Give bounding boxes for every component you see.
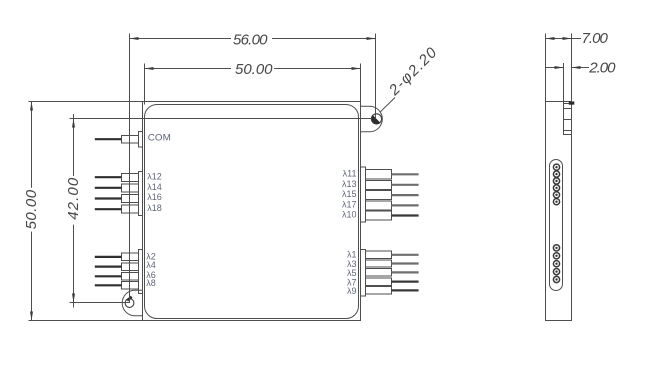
dimension 50.00 vertical bbox=[29, 102, 143, 321]
pin lambda12 bbox=[95, 176, 122, 178]
side top block (2mm plate) bbox=[564, 104, 572, 135]
extension line bottom bbox=[29, 320, 143, 322]
side view fiber holes bottom group bbox=[553, 245, 559, 283]
dimension 42.00 vertical bbox=[70, 114, 372, 308]
block 1 bbox=[366, 251, 392, 259]
svg-text:λ15: λ15 bbox=[342, 189, 357, 199]
pin lambda9 bbox=[392, 289, 419, 291]
block 17 bbox=[366, 201, 392, 210]
pin lambda17 bbox=[392, 204, 419, 206]
block 4 bbox=[122, 263, 139, 271]
pin lambda3 bbox=[392, 262, 419, 264]
left upper connector flange (lambda12-18) bbox=[122, 172, 143, 216]
pins lambda12-18 bbox=[95, 177, 122, 209]
block 15 bbox=[366, 191, 392, 200]
pin lambda10 bbox=[392, 214, 419, 216]
svg-text:50.00: 50.00 bbox=[23, 189, 40, 229]
pins lambda1-9 bbox=[392, 255, 419, 291]
side top block dark pin bbox=[569, 101, 575, 104]
block 3 bbox=[366, 260, 392, 267]
left lower connector flange (lambda2-8) bbox=[122, 250, 143, 294]
pin lambda15 bbox=[392, 194, 419, 196]
block 10 bbox=[366, 211, 392, 220]
block 5 bbox=[366, 269, 392, 277]
pin lambda5 bbox=[392, 271, 419, 273]
front view outer rectangle bbox=[143, 102, 361, 321]
bottom-left mounting ear bbox=[122, 290, 142, 316]
port labels right bbox=[342, 169, 357, 297]
block 13 bbox=[366, 181, 392, 190]
block 7 bbox=[366, 278, 392, 286]
extension line right (to top-right hole) bbox=[375, 34, 377, 119]
pin lambda8 bbox=[95, 284, 122, 286]
pins lambda2-8 bbox=[95, 257, 122, 285]
dimension 7.00 bbox=[546, 34, 582, 102]
block 2 bbox=[122, 253, 139, 261]
svg-text:50.00: 50.00 bbox=[235, 61, 273, 78]
port labels left bbox=[146, 133, 171, 289]
dimension 50.00 horizontal bbox=[145, 64, 361, 105]
side slot bbox=[550, 160, 563, 291]
pin lambda11 bbox=[392, 173, 419, 175]
COM connector block bbox=[122, 136, 139, 144]
svg-text:λ12: λ12 bbox=[147, 172, 162, 182]
block 18 bbox=[122, 205, 139, 213]
svg-text:2.00: 2.00 bbox=[588, 59, 616, 76]
extension line top bbox=[29, 101, 143, 103]
extension line bottom (to bottom-left hole) bbox=[70, 302, 130, 304]
block 8 bbox=[122, 282, 139, 290]
pin lambda2 bbox=[95, 256, 122, 258]
side view fiber holes top group bbox=[553, 164, 559, 205]
top-right mounting ear bbox=[361, 106, 383, 132]
leader 2-phi2.20 bbox=[380, 98, 395, 113]
svg-text:λ11: λ11 bbox=[343, 169, 357, 179]
side view body bbox=[546, 102, 572, 321]
svg-text:λ13: λ13 bbox=[342, 179, 357, 189]
pin lambda4 bbox=[95, 266, 122, 268]
svg-text:COM: COM bbox=[148, 133, 171, 143]
right lower connector flange (lambda1-9) bbox=[361, 250, 392, 297]
top-right hole 2.20 bbox=[371, 114, 381, 124]
svg-text:λ8: λ8 bbox=[146, 278, 156, 288]
pin lambda13 bbox=[392, 184, 419, 186]
front view inner rounded body bbox=[145, 105, 359, 319]
bottom-left hole 2.20 bbox=[125, 297, 134, 308]
svg-text:λ16: λ16 bbox=[147, 192, 162, 202]
svg-text:λ14: λ14 bbox=[147, 182, 162, 192]
right upper connector flange (lambda11-10) bbox=[361, 167, 392, 222]
COM pin bbox=[95, 138, 122, 140]
svg-text:λ18: λ18 bbox=[147, 203, 162, 213]
COM connector flange bbox=[122, 132, 143, 148]
block 6 bbox=[122, 273, 139, 281]
svg-text:56.00: 56.00 bbox=[233, 32, 268, 49]
pin lambda14 bbox=[95, 187, 122, 189]
pin lambda1 bbox=[392, 254, 419, 256]
pin lambda6 bbox=[95, 275, 122, 277]
svg-text:λ10: λ10 bbox=[342, 210, 357, 220]
pin lambda18 bbox=[95, 208, 122, 210]
svg-text:7.00: 7.00 bbox=[582, 30, 609, 47]
dimension 2.00 bbox=[546, 63, 590, 104]
svg-text:42.00: 42.00 bbox=[65, 177, 82, 220]
svg-text:λ9: λ9 bbox=[347, 286, 357, 296]
block 14 bbox=[122, 184, 139, 192]
extension line top (to top-right hole) bbox=[70, 118, 372, 120]
svg-text:λ17: λ17 bbox=[342, 199, 357, 209]
block 16 bbox=[122, 195, 139, 203]
pin lambda16 bbox=[95, 197, 122, 199]
block 9 bbox=[366, 287, 392, 295]
pins lambda11-10 bbox=[392, 174, 419, 215]
extension line left (through bottom-left hole) bbox=[129, 34, 131, 304]
block 11 bbox=[366, 170, 392, 180]
svg-text:λ4: λ4 bbox=[146, 260, 156, 270]
block 12 bbox=[122, 174, 139, 182]
pin lambda7 bbox=[392, 281, 419, 283]
dimension 56.00 bbox=[130, 34, 376, 304]
